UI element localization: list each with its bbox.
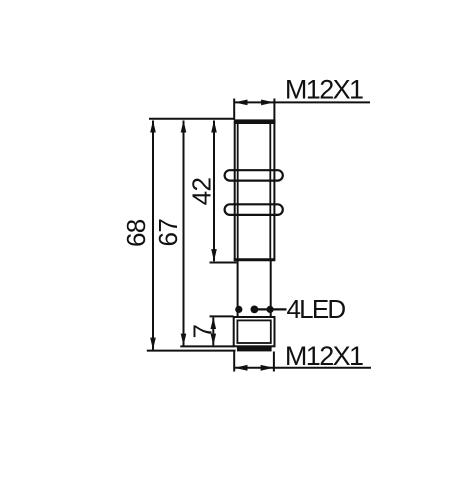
- label 67: [153, 219, 183, 247]
- LED dot middle: [251, 306, 259, 314]
- bottom M12 left extension line: [233, 352, 235, 372]
- thread inner left line: [237, 123, 239, 259]
- label 4LED: [287, 294, 346, 324]
- bottom M12 left arrow: [234, 365, 247, 371]
- svg-text:7: 7: [187, 325, 217, 339]
- sensor top face: [234, 119, 276, 124]
- dim line 42: [211, 120, 217, 261]
- label 68: [121, 219, 151, 247]
- thread outer right line: [273, 121, 275, 261]
- bottom M12 right arrow: [261, 365, 274, 371]
- top M12 left arrow: [234, 100, 247, 106]
- svg-text:M12X1: M12X1: [285, 74, 363, 104]
- dim line 68: [150, 120, 156, 349]
- 68 bottom extension line: [147, 350, 236, 352]
- dim line 7: [211, 317, 217, 345]
- LED leader line: [254, 308, 286, 310]
- bottom M12 right extension line: [273, 352, 275, 372]
- bottom M12 dimension line: [234, 367, 371, 369]
- svg-text:68: 68: [121, 219, 151, 247]
- connector housing outer: [234, 317, 275, 346]
- thread outer left line: [234, 121, 236, 261]
- connector thread band: [237, 346, 272, 351]
- label M12X1 bottom: [285, 341, 363, 371]
- LED dot right: [267, 306, 274, 313]
- thread end line: [234, 258, 275, 261]
- label M12X1 top: [285, 74, 363, 104]
- top M12 left extension line: [233, 99, 235, 121]
- barrel right line: [270, 260, 272, 318]
- label 42: [186, 178, 216, 206]
- top M12 right arrow: [261, 100, 274, 106]
- 7 top extension line: [210, 315, 234, 317]
- 42 bottom extension line: [210, 262, 237, 264]
- nut ring 2: [225, 204, 283, 215]
- dim line 67: [181, 120, 187, 345]
- barrel left line: [237, 260, 239, 318]
- svg-text:42: 42: [186, 178, 216, 206]
- LED dot left: [235, 306, 242, 313]
- svg-text:4LED: 4LED: [287, 294, 346, 324]
- connector housing inner: [237, 320, 270, 343]
- thread inner right line: [269, 123, 271, 259]
- 67 and 7 bottom extension line: [180, 345, 234, 347]
- top M12 dimension line: [234, 101, 370, 103]
- top-left extension line: [149, 118, 234, 120]
- top M12 right extension line: [273, 99, 275, 121]
- nut ring 1: [225, 170, 283, 180]
- svg-text:67: 67: [153, 219, 183, 247]
- svg-text:M12X1: M12X1: [285, 341, 363, 371]
- label 7: [187, 325, 217, 339]
